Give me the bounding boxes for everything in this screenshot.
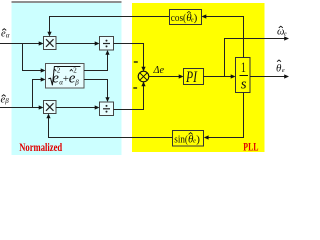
- minus sign bottom: [133, 87, 137, 89]
- svg-text:Normalized: Normalized: [19, 142, 62, 154]
- svg-text:s: s: [241, 76, 247, 92]
- svg-text:PI: PI: [185, 69, 197, 86]
- integrator block 1/s: [236, 58, 251, 93]
- cos block: [170, 10, 202, 25]
- wire sqrt to divider D1 (up): [84, 54, 108, 71]
- wire D2 to summing junction: [114, 86, 144, 110]
- svg-text:e: e: [282, 67, 285, 74]
- wire branch to omega output: [225, 39, 285, 77]
- label e_alpha hat: [1, 29, 10, 40]
- wire theta to sin block: [208, 93, 244, 138]
- wire M2 to divider D2: [56, 107, 96, 109]
- divider D1 (top ÷ box): [100, 37, 114, 51]
- wire D1 to summing junction: [114, 44, 144, 68]
- svg-text:e: e: [284, 31, 287, 38]
- normalized region top shadow: [12, 1, 122, 3]
- svg-text:β: β: [74, 79, 79, 87]
- wire sqrt to divider D2 (down): [84, 80, 108, 99]
- divider D2 (bottom ÷ box): [100, 102, 114, 116]
- svg-text:): ): [196, 134, 200, 146]
- multiplier M2 (bottom X box): [44, 101, 57, 114]
- svg-text:β: β: [4, 97, 9, 105]
- svg-text:sin(: sin(: [174, 134, 188, 146]
- svg-text:PLL: PLL: [243, 142, 258, 154]
- wire branch e_beta to sqrt: [33, 80, 42, 108]
- PI controller block: [184, 69, 204, 87]
- summing junction (circle with X): [138, 71, 149, 82]
- wire branch e_alpha to sqrt: [23, 44, 42, 71]
- svg-text:1: 1: [241, 60, 246, 76]
- svg-text:Δe: Δe: [153, 64, 165, 76]
- svg-text:α: α: [6, 31, 10, 39]
- multiplier M1 (top X box): [44, 37, 57, 50]
- svg-text:): ): [194, 12, 198, 24]
- wire e_beta input: [0, 107, 40, 109]
- svg-text:cos(: cos(: [171, 12, 187, 24]
- wire summing junction to PI: [149, 76, 180, 78]
- sin block: [173, 131, 204, 147]
- minus sign top: [134, 61, 138, 63]
- label omega_e hat: [277, 26, 287, 38]
- PLL region (yellow): [132, 3, 265, 152]
- wire e_alpha input: [0, 43, 40, 45]
- label theta_e hat (output): [276, 60, 285, 74]
- wire theta output: [250, 76, 285, 78]
- svg-text:2: 2: [73, 67, 77, 75]
- wire sin feedback to M2: [49, 118, 173, 138]
- normalized region (cyan): [12, 3, 122, 156]
- label e_beta hat: [1, 95, 10, 106]
- wire theta to cos block: [206, 17, 244, 58]
- svg-text:2: 2: [57, 67, 61, 75]
- wire PI to integrator: [204, 76, 232, 78]
- wire M1 to divider D1: [56, 43, 96, 45]
- wire cos feedback to M1: [50, 17, 170, 33]
- sqrt magnitude block: [46, 64, 85, 89]
